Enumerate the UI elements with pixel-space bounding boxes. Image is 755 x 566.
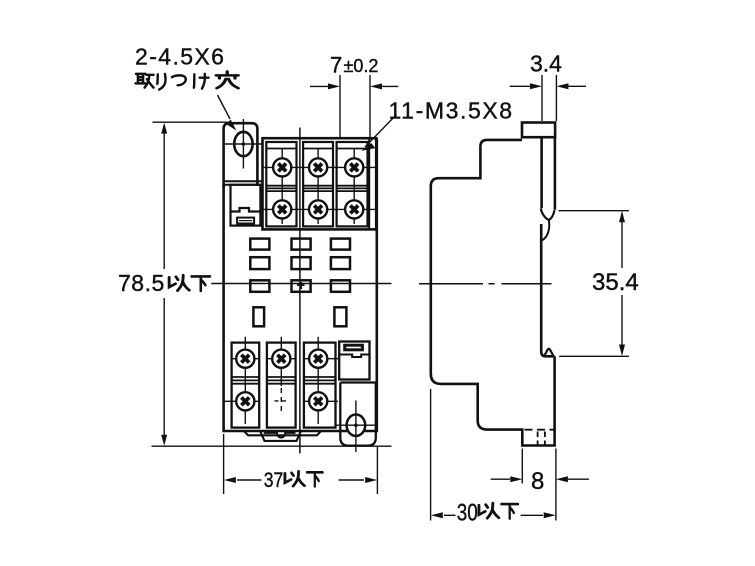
mounting tab top-left [224, 123, 258, 188]
svg-text:35.4: 35.4 [592, 269, 639, 296]
mid band lines [266, 185, 367, 187]
kanji 取りつけ穴 [136, 74, 154, 88]
dimension 35.4 [559, 211, 630, 357]
extension line top (78.5) [153, 121, 228, 123]
bottom hook [544, 349, 553, 356]
svg-text:±0.2: ±0.2 [344, 56, 379, 76]
centerline horizontal front view [211, 283, 391, 285]
centerline vertical front view [299, 128, 301, 454]
dimension line 78.5 with arrows [161, 123, 167, 446]
front body right edge [375, 138, 378, 432]
top block screw crosshairs [263, 149, 377, 224]
svg-text:30: 30 [457, 500, 478, 527]
side body outline [431, 140, 555, 446]
svg-text:2-4.5X6: 2-4.5X6 [135, 44, 225, 70]
svg-text:37: 37 [264, 469, 284, 492]
centerline side view dash-dot [419, 283, 552, 285]
din screw tab [522, 123, 555, 138]
dimension 8 [491, 449, 589, 521]
relay pin windows row D vertical [253, 307, 264, 326]
top terminal block outer rect [263, 138, 377, 229]
svg-text:78.5: 78.5 [118, 270, 165, 296]
column box 2 [303, 142, 333, 226]
channel outer wall [554, 137, 557, 210]
kanji 下 [192, 276, 210, 290]
channel inner wall lower [541, 224, 554, 356]
terminal screw A3 [345, 158, 363, 176]
claw V notch [541, 209, 555, 220]
mid band lines bottom block [232, 376, 336, 378]
dimension 30以下 [431, 389, 543, 521]
terminal screw B4 [236, 392, 254, 410]
dimension 37以下 [224, 434, 378, 494]
terminal screw A2 [309, 158, 327, 176]
terminal screw A6 [345, 200, 363, 218]
terminal screw A1 [273, 158, 291, 176]
top rim lines [266, 148, 367, 150]
dimension 3.4 [510, 75, 586, 121]
tab bottom double lines [224, 181, 263, 185]
terminal screw B5 [309, 392, 327, 410]
terminal screw B2 [272, 350, 290, 368]
release clip box below tab [231, 185, 261, 226]
terminal screw B1 [236, 350, 254, 368]
column box 3 [337, 142, 368, 226]
hidden dashed lines foot [525, 430, 554, 445]
bottom block screw crosshairs [224, 337, 338, 424]
column box 1 [266, 142, 296, 226]
extension line bottom (78.5) [152, 445, 392, 447]
svg-text:7: 7 [330, 53, 342, 78]
oval mounting tab bottom-right [336, 383, 377, 453]
relay pin windows row B [250, 257, 269, 269]
channel inner wall upper [540, 137, 543, 208]
svg-text:8: 8 [531, 468, 544, 495]
terminal screw A5 [309, 200, 327, 218]
top block column boxes [266, 142, 367, 226]
leader arrow to mounting hole [218, 95, 231, 119]
relay pin windows row C [250, 280, 269, 292]
kanji 以 [169, 275, 189, 290]
plus mark in row C center [297, 282, 305, 289]
terminal screw B3 [309, 350, 327, 368]
bottom terminal block column boxes [232, 343, 336, 428]
relay pin windows row A [250, 239, 350, 327]
top block inner right wall [368, 138, 370, 229]
bottom latch profile [244, 431, 321, 441]
terminal screw A4 [273, 200, 291, 218]
front body bottom edge [224, 430, 378, 432]
claw bulge [542, 220, 550, 241]
dimension 7±0.2 [310, 75, 398, 137]
svg-text:3.4: 3.4 [530, 51, 562, 77]
release lever housing right [339, 342, 369, 380]
mounting hole oval top-left [225, 119, 263, 169]
dashed center mark col2 [280, 388, 282, 414]
svg-text:11-M3.5X8: 11-M3.5X8 [389, 98, 514, 124]
front body left edge [222, 185, 225, 432]
